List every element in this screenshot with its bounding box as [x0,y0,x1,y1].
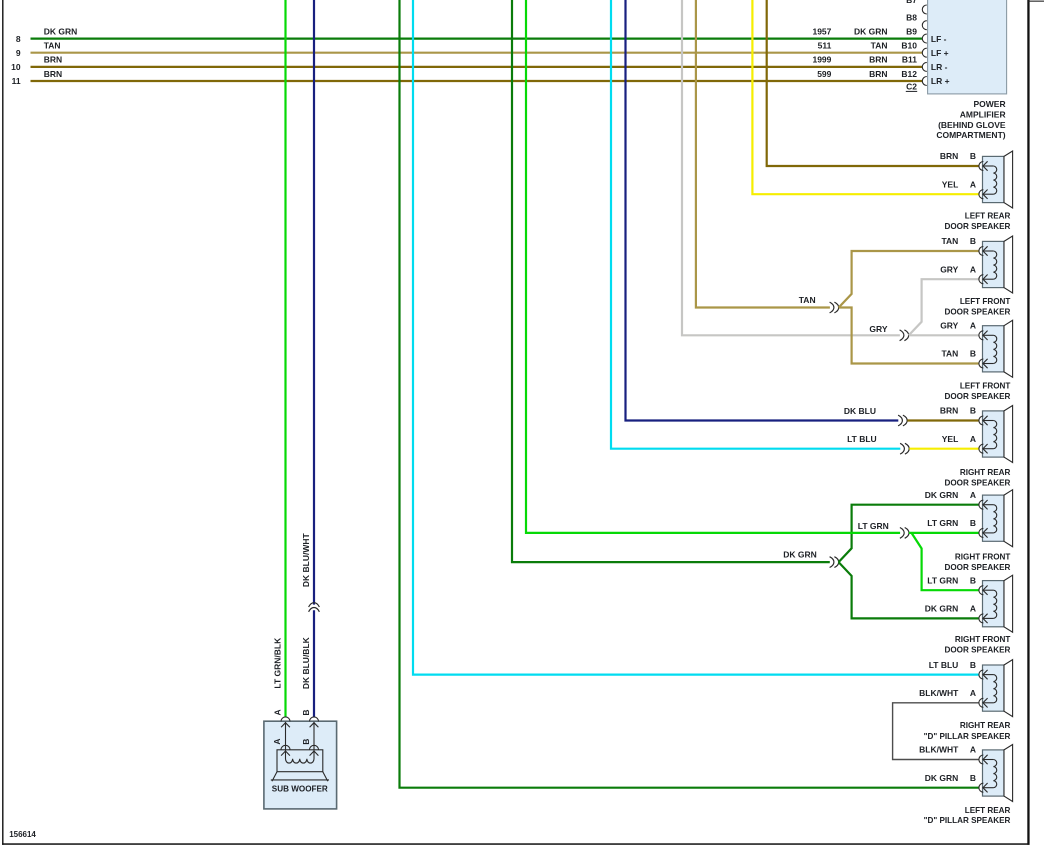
connector C in DK BLU sub woofer wire [309,603,320,607]
svg-text:A: A [970,490,976,500]
svg-text:RIGHT FRONT: RIGHT FRONT [955,553,1011,562]
svg-text:B11: B11 [902,55,917,65]
svg-text:TAN: TAN [941,349,958,359]
wire LT GRN vertical to right front door speakers [526,0,900,533]
svg-text:A: A [272,709,282,715]
svg-text:LT GRN: LT GRN [927,575,958,585]
svg-text:A: A [970,179,976,189]
amplifier pin B11 terminal [922,62,927,71]
svg-text:B7: B7 [906,0,917,5]
top edge remnant line [1028,1,1044,2]
sub woofer coil [286,750,315,763]
wire LT GRN vertical to sub woofer A [284,0,286,717]
svg-text:GRY: GRY [940,264,958,274]
svg-text:A: A [970,688,976,698]
svg-text:(BEHIND GLOVE: (BEHIND GLOVE [938,120,1006,130]
svg-text:GRY: GRY [869,324,887,334]
svg-text:A: A [970,604,976,614]
svg-text:DOOR SPEAKER: DOOR SPEAKER [944,479,1010,488]
wire DK GRN branch to right front door speaker A lower [839,562,979,618]
wire LT BLU vertical to right rear door speaker [611,0,900,449]
svg-text:DK BLU/WHT: DK BLU/WHT [301,532,311,587]
sub woofer inner terminal B arrow [310,751,319,756]
amplifier pin B7 terminal [922,5,927,14]
svg-text:DK GRN: DK GRN [854,26,888,36]
svg-text:BRN: BRN [869,69,887,79]
svg-text:A: A [970,434,976,444]
sub woofer terminal B arc [310,717,319,722]
svg-text:DOOR SPEAKER: DOOR SPEAKER [944,645,1010,654]
speaker left front door speaker lower [979,320,1013,377]
svg-text:11: 11 [12,76,21,86]
svg-text:LF -: LF - [931,34,947,44]
svg-text:LT BLU: LT BLU [929,660,959,670]
wire LT GRN to right front door speaker B upper [909,532,979,534]
sub woofer terminal B arrow [310,723,319,728]
svg-text:LF +: LF + [931,48,949,58]
svg-text:BRN: BRN [869,55,887,65]
sub woofer inner terminal B arc [310,745,319,750]
wire GRY vertical to left front door speakers [682,0,900,335]
svg-text:LT GRN: LT GRN [927,518,958,528]
wire TAN branch to left front door speaker B upper [839,251,979,308]
speaker right front door speaker lower [979,575,1013,632]
svg-text:RIGHT FRONT: RIGHT FRONT [955,635,1011,644]
connector C in TAN left front wire [830,302,834,313]
svg-text:DOOR SPEAKER: DOOR SPEAKER [944,307,1010,316]
svg-text:LEFT FRONT: LEFT FRONT [960,297,1011,306]
speaker left front door speaker upper [979,236,1013,293]
sub woofer inner terminal A arrow [281,751,290,756]
wire BLK/WHT between D pillar speakers [893,703,979,760]
svg-text:DK GRN: DK GRN [925,490,959,500]
svg-text:BRN: BRN [44,69,62,79]
wire DK BLU vertical to right rear door speaker [626,0,899,421]
svg-text:DK GRN: DK GRN [925,773,959,783]
connector C in DK GRN right front wire [830,557,834,568]
wire BRN pin 11 feed [31,80,923,82]
wire GRY to left front door speaker A lower [909,334,979,336]
svg-text:BRN: BRN [940,406,958,416]
svg-text:LT GRN: LT GRN [858,521,889,531]
sub woofer speaker frame [277,750,323,772]
amplifier pin B10 terminal [922,48,927,57]
svg-text:599: 599 [817,69,831,79]
wire LT BLU vertical to right rear D pillar speaker [413,0,979,675]
wire TAN vertical to left front door speakers [696,0,830,308]
sub woofer terminal A arc [281,717,290,721]
svg-text:DK GRN: DK GRN [925,604,959,614]
svg-text:BLK/WHT: BLK/WHT [919,688,959,698]
sub woofer terminal A arrow [281,723,290,728]
svg-text:LR +: LR + [931,76,950,86]
connector C DK BLU to BRN right rear [898,415,902,426]
wire BRN to right rear door speaker B [907,419,979,421]
svg-text:B: B [970,406,976,416]
svg-text:B8: B8 [906,12,917,22]
svg-text:511: 511 [818,41,832,51]
wire TAN pin 9 feed [31,52,923,54]
wire LT GRN branch to right front door speaker B lower [912,533,979,590]
connector C in LT GRN right front wire [900,528,904,539]
svg-text:B: B [301,739,311,745]
svg-text:RIGHT REAR: RIGHT REAR [960,721,1011,730]
svg-text:LEFT FRONT: LEFT FRONT [960,382,1011,391]
speaker right rear D pillar speaker [979,660,1013,717]
speaker left rear door speaker [979,151,1013,208]
sub woofer terminal B lead [313,722,315,750]
svg-text:8: 8 [16,34,21,44]
svg-text:B: B [970,151,976,161]
wire BRN vertical to left rear door speaker B [767,0,979,166]
wire DK GRN pin 8 feed [31,37,923,39]
wire DK GRN branch to right front door speaker A upper [839,505,979,562]
amplifier pin B8 terminal [922,21,927,30]
svg-text:DOOR SPEAKER: DOOR SPEAKER [944,563,1010,572]
svg-text:LT BLU: LT BLU [847,434,877,444]
svg-text:1957: 1957 [812,26,831,36]
border frame left [2,0,3,845]
power amplifier U1 box [928,0,1007,94]
svg-text:B: B [970,660,976,670]
svg-text:A: A [970,745,976,755]
wire YEL to right rear door speaker A [909,448,979,450]
svg-text:1999: 1999 [812,55,831,65]
svg-text:TAN: TAN [799,295,816,305]
sub woofer inner terminal A arc [281,745,290,749]
wire DK BLU/BLK vertical to sub woofer B lower [313,610,315,717]
speaker left rear D pillar speaker [979,745,1013,802]
svg-text:RIGHT REAR: RIGHT REAR [960,468,1011,477]
svg-text:BRN: BRN [940,151,958,161]
svg-text:DK BLU: DK BLU [844,406,876,416]
svg-text:A: A [970,321,976,331]
svg-text:DOOR SPEAKER: DOOR SPEAKER [944,222,1010,231]
amplifier pin B9 terminal [922,34,927,43]
svg-text:B: B [970,518,976,528]
svg-text:B12: B12 [901,69,917,79]
svg-text:TAN: TAN [941,236,958,246]
svg-text:B: B [970,575,976,585]
svg-text:DK GRN: DK GRN [44,26,78,36]
border frame right [1027,0,1029,845]
svg-text:LT GRN/BLK: LT GRN/BLK [272,637,282,689]
svg-text:156614: 156614 [9,830,36,839]
svg-text:DK GRN: DK GRN [783,550,817,560]
speaker right rear door speaker [979,406,1013,463]
svg-text:BRN: BRN [44,55,62,65]
svg-text:C2: C2 [906,82,917,92]
svg-text:9: 9 [16,48,21,58]
wire BRN pin 10 feed [31,66,923,68]
sub woofer cone [271,772,329,782]
svg-text:LEFT REAR: LEFT REAR [965,806,1011,815]
svg-text:B: B [970,236,976,246]
svg-text:A: A [970,264,976,274]
svg-text:TAN: TAN [44,41,61,51]
sub woofer box [264,721,337,809]
svg-text:YEL: YEL [942,179,959,189]
sub woofer terminal A lead [285,722,287,750]
svg-text:GRY: GRY [940,321,958,331]
svg-text:AMPLIFIER: AMPLIFIER [960,109,1006,119]
svg-text:B10: B10 [901,41,917,51]
border frame bottom [2,843,1029,845]
wire DK BLU vertical to sub woofer B upper [313,0,315,605]
wire DK GRN vertical to right front door speakers [512,0,830,562]
svg-text:10: 10 [11,62,21,72]
svg-text:BLK/WHT: BLK/WHT [919,745,959,755]
svg-text:"D" PILLAR SPEAKER: "D" PILLAR SPEAKER [924,732,1011,741]
svg-text:LEFT REAR: LEFT REAR [965,212,1011,221]
svg-text:A: A [272,738,282,744]
svg-text:B: B [970,349,976,359]
speaker right front door speaker upper [979,490,1013,547]
svg-text:LR -: LR - [931,62,948,72]
connector C LT BLU to YEL right rear [900,443,904,454]
svg-text:"D" PILLAR SPEAKER: "D" PILLAR SPEAKER [924,816,1011,825]
wire DK GRN vertical to left rear D pillar speaker [400,0,979,788]
svg-text:COMPARTMENT): COMPARTMENT) [936,130,1005,140]
svg-text:POWER: POWER [973,99,1005,109]
svg-text:B: B [301,709,311,715]
svg-text:DK BLU/BLK: DK BLU/BLK [301,636,311,689]
svg-text:YEL: YEL [942,434,959,444]
svg-text:SUB WOOFER: SUB WOOFER [272,785,328,794]
wire TAN branch to left front door speaker B lower [839,308,979,364]
svg-text:B9: B9 [906,27,917,37]
amplifier pin B12 terminal [922,77,927,86]
connector C in GRY left front wire [900,330,904,341]
wire YEL vertical to left rear door speaker A [752,0,979,194]
svg-text:DOOR SPEAKER: DOOR SPEAKER [944,392,1010,401]
svg-text:TAN: TAN [871,41,888,51]
svg-text:B: B [970,773,976,783]
wire GRY branch to left front door speaker A upper [909,279,979,335]
